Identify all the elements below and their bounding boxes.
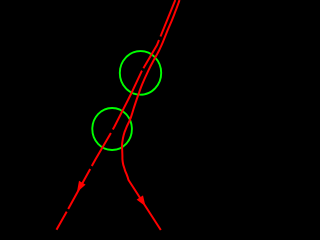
green circle 2 (lower deflection region)	[92, 108, 132, 150]
arrowhead on dashed ray (points down-left)	[77, 181, 86, 193]
arrowhead on solid ray (points down-right)	[137, 195, 146, 206]
solid red ray (deflected light path, curving to lower right)	[122, 0, 180, 230]
dashed red ray (undeflected direction), explicit dash segments	[57, 0, 176, 230]
green circle 1 (upper deflection region)	[120, 51, 161, 95]
